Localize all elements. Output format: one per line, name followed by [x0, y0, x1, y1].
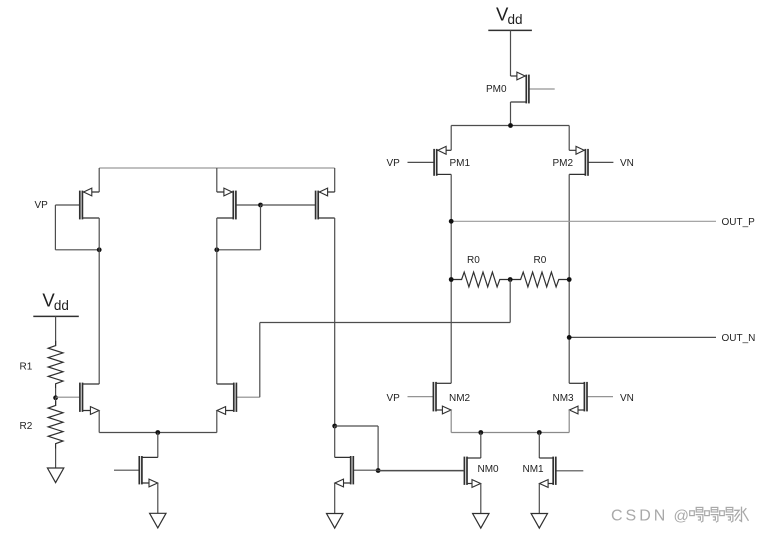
- wire tail NMOS source: [157, 483, 159, 513]
- svg-text:VP: VP: [387, 158, 401, 169]
- wire middle gate tie to drain: [217, 249, 261, 251]
- node divider R1/R2 junction: [53, 395, 58, 400]
- wire bias PMOS source: [334, 168, 336, 192]
- transistor right diff NMOS: [217, 383, 260, 415]
- wire NM3 source down: [568, 410, 570, 433]
- wire R1 to divider node: [55, 389, 57, 398]
- wire NM1 drain: [538, 433, 540, 459]
- wire CMFB riser to right diff NMOS gate: [259, 323, 261, 398]
- svg-text:VP: VP: [35, 200, 49, 211]
- transistor NM1 (NMOS mirror, gate right): [539, 457, 583, 488]
- node NM0 drain junction: [478, 430, 483, 435]
- svg-text:R0: R0: [534, 255, 547, 266]
- wire bias PMOS drain down: [334, 218, 336, 426]
- transistor tail NMOS (first stage): [114, 456, 158, 487]
- node tail junction: [155, 430, 160, 435]
- wire NM1 source: [538, 484, 540, 514]
- wire right branch PM2 drain to NM3 drain: [568, 174, 570, 383]
- resistor R0 (right): [510, 272, 569, 287]
- watermark glyph water: [734, 507, 748, 522]
- svg-text:@: @: [674, 508, 689, 525]
- transistor left PMOS (diode connected): [55, 188, 99, 219]
- wire bias diode NMOS source: [334, 483, 336, 514]
- node OUT_N junction: [567, 335, 572, 340]
- transistor bias PMOS (right of first stage): [316, 188, 335, 219]
- wire left PMOS source: [98, 168, 100, 192]
- wire NM0 drain: [480, 433, 482, 459]
- svg-text:VN: VN: [620, 393, 634, 404]
- wire Vdd to R1: [55, 316, 57, 346]
- wire left PMOS gate down: [54, 205, 56, 250]
- node NM1 drain junction: [537, 430, 542, 435]
- wire middle PMOS gate down: [260, 205, 262, 250]
- wire left diff NMOS source: [98, 411, 100, 433]
- transistor PM1 (PMOS input, gate left): [408, 146, 452, 175]
- wire first stage bottom rail: [99, 432, 217, 434]
- wire divider node to R2: [55, 398, 57, 406]
- node bias gate junction: [376, 468, 381, 473]
- wire left branch PM1 drain to NM2 drain: [450, 174, 452, 383]
- svg-text:OUT_P: OUT_P: [722, 217, 756, 228]
- wire bias diode tie vertical: [377, 426, 379, 471]
- wire output stage bottom rail: [451, 432, 569, 434]
- wire gate net to right PMOS: [261, 204, 316, 206]
- ground (NM1 source): [531, 514, 547, 529]
- svg-text:CSDN: CSDN: [611, 508, 668, 525]
- wire tail drop: [157, 433, 159, 458]
- watermark glyph 3: [720, 507, 733, 522]
- svg-text:dd: dd: [508, 12, 523, 27]
- wire middle PMOS source: [216, 168, 218, 192]
- wire OUT_P line: [451, 220, 716, 222]
- transistor left diff NMOS: [56, 383, 100, 415]
- svg-text:VP: VP: [387, 393, 401, 404]
- svg-text:R1: R1: [20, 362, 33, 373]
- wire top rail of PM1/PM2: [451, 125, 569, 127]
- wire PM1 source: [450, 126, 452, 151]
- node R0 left end: [449, 277, 454, 282]
- wire PM0 drain to top rail: [510, 102, 512, 126]
- watermark glyph 1: [690, 507, 703, 522]
- wire bias drain to diode NMOS: [334, 426, 336, 457]
- svg-text:VN: VN: [620, 158, 634, 169]
- svg-text:PM2: PM2: [553, 158, 574, 169]
- watermark CSDN: [611, 508, 689, 525]
- node PM0 drain junction: [508, 123, 513, 128]
- svg-text:PM0: PM0: [486, 84, 507, 95]
- wire first stage top rail: [99, 167, 335, 169]
- transistor middle PMOS (diode connected): [217, 188, 261, 219]
- wire Vdd to PM0 source: [510, 30, 512, 76]
- transistor NM3 (NMOS, gate right): [569, 382, 613, 414]
- node OUT_P junction: [449, 219, 454, 224]
- wire NM0 source: [480, 484, 482, 514]
- wire middle PMOS drain to right diff NMOS drain: [216, 218, 218, 384]
- ground (bias diode NMOS): [327, 514, 343, 529]
- resistor R0 (left): [451, 272, 510, 287]
- svg-text:NM2: NM2: [449, 393, 471, 404]
- svg-text:NM0: NM0: [478, 464, 500, 475]
- ground (divider): [47, 468, 63, 483]
- wire gate tie to drain: [55, 249, 99, 251]
- wire R0 midpoint down (CMFB sense): [509, 280, 511, 323]
- svg-text:OUT_N: OUT_N: [722, 333, 756, 344]
- wire NM2 source down: [450, 410, 452, 433]
- ground (tail NMOS): [150, 513, 166, 528]
- transistor NM2 (NMOS, gate left): [408, 382, 452, 414]
- node left PMOS gate-drain tie: [97, 247, 102, 252]
- resistor R1: [48, 341, 63, 389]
- svg-text:R2: R2: [20, 421, 33, 432]
- transistor NM0 (NMOS mirror, gate left): [378, 457, 481, 488]
- transistor PM2 (PMOS input, gate right): [569, 146, 613, 175]
- wire right diff NMOS source: [216, 411, 218, 433]
- node middle PMOS gate-drain tie: [214, 247, 219, 252]
- wire left PMOS drain to left diff NMOS drain: [98, 218, 100, 384]
- node bias PMOS drain junction: [332, 424, 337, 429]
- wire bias diode tie horizontal: [335, 425, 378, 427]
- node R0 right end: [567, 277, 572, 282]
- node R0 midpoint: [508, 277, 513, 282]
- svg-text:PM1: PM1: [450, 158, 471, 169]
- transistor bias diode NMOS: [335, 456, 378, 487]
- wire OUT_N line: [569, 336, 716, 338]
- resistor R2: [48, 401, 63, 449]
- power Vdd (divider): [33, 290, 79, 317]
- transistor PM0 (PMOS tail, gate right): [511, 72, 555, 103]
- wire R2 to ground: [55, 449, 57, 469]
- watermark glyph 2: [705, 507, 718, 522]
- wire bias gate net to NM0: [378, 470, 464, 472]
- svg-text:dd: dd: [54, 298, 69, 313]
- wire CMFB horizontal to first stage: [260, 322, 510, 324]
- wire PM2 source: [568, 126, 570, 151]
- power Vdd (output stage): [488, 4, 532, 31]
- node middle PMOS gate junction: [258, 203, 263, 208]
- ground (NM0 source): [473, 514, 489, 529]
- svg-text:NM1: NM1: [523, 464, 545, 475]
- svg-text:NM3: NM3: [553, 393, 575, 404]
- svg-text:R0: R0: [467, 255, 480, 266]
